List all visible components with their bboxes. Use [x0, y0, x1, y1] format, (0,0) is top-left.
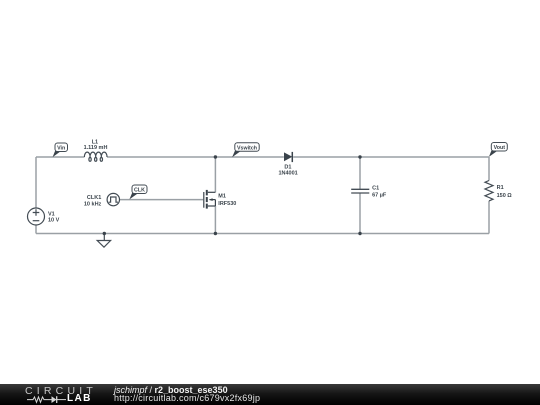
svg-text:10 V: 10 V: [48, 217, 60, 223]
svg-text:67 µF: 67 µF: [372, 193, 387, 199]
svg-text:CLK: CLK: [134, 188, 145, 194]
svg-text:Vswitch: Vswitch: [237, 145, 257, 151]
svg-text:1.119 mH: 1.119 mH: [84, 145, 108, 151]
svg-text:10 kHz: 10 kHz: [84, 201, 102, 207]
svg-text:1N4001: 1N4001: [278, 171, 297, 177]
svg-text:R1: R1: [497, 185, 504, 191]
svg-text:CLK1: CLK1: [87, 195, 101, 201]
svg-text:Vout: Vout: [494, 145, 506, 151]
svg-text:C1: C1: [372, 186, 379, 192]
svg-text:M1: M1: [218, 194, 226, 200]
svg-text:IRF530: IRF530: [218, 201, 236, 207]
svg-text:Vin: Vin: [57, 146, 65, 152]
svg-text:V1: V1: [48, 211, 55, 217]
svg-text:150 Ω: 150 Ω: [497, 193, 513, 199]
